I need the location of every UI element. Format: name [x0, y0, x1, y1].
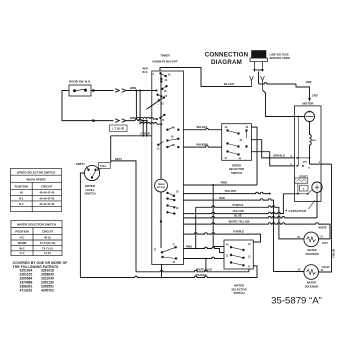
timer contact R3 terminal 42: [167, 144, 180, 148]
label ORANGE: [195, 273, 207, 277]
wire GRN ground: [259, 72, 310, 100]
svg-text:WHITE-BLUE: WHITE-BLUE: [196, 268, 213, 272]
motor terminal 2 nodes: [296, 165, 304, 167]
timer contact mid: [157, 142, 164, 151]
wire vertical v3: [142, 121, 144, 136]
motor terminal 3 node: [296, 157, 310, 159]
ground arrow to motor frame: [308, 98, 311, 102]
label DEAT: [115, 157, 122, 161]
arrowhead brn2: [93, 119, 97, 122]
svg-text:4PU: 4PU: [303, 161, 308, 164]
wire YELLOW lower: [183, 194, 298, 214]
svg-text:TIMER: TIMER: [158, 184, 165, 186]
label 20: [298, 270, 301, 272]
timer contact T5: [158, 97, 165, 106]
wire full-to-switch: [97, 169, 101, 171]
svg-text:L.T. BLUE: L.T. BLUE: [112, 127, 124, 131]
label 4PU lower: [303, 161, 308, 164]
label BRN 2: [130, 116, 136, 120]
svg-text:EMPTY: EMPTY: [76, 162, 85, 166]
hot water solenoid L1: [304, 232, 319, 247]
wire BLUE: [183, 216, 317, 217]
svg-text:WATER SELECTOR SWITCH: WATER SELECTOR SWITCH: [17, 222, 56, 226]
wire speed-sel 44 to motor 2: [251, 152, 294, 166]
wire BLACK plug-to-timer: [160, 68, 252, 87]
svg-text:35-5879 “A”: 35-5879 “A”: [271, 296, 322, 307]
svg-text:CONNECTION: CONNECTION: [205, 52, 249, 59]
label BLUE: [234, 214, 242, 218]
svg-text:11-10: 11-10: [44, 251, 51, 255]
label WATER SELECTOR SWITCH: [231, 284, 246, 296]
wire RED: [183, 199, 304, 272]
svg-text:YELLOW: YELLOW: [224, 189, 236, 193]
svg-text:WH-BRN: WH-BRN: [196, 143, 207, 147]
svg-text:PURPLE: PURPLE: [233, 203, 244, 207]
svg-text:LT. BLUE: LT. BLUE: [140, 133, 151, 136]
wire deat white-blue feed: [111, 161, 136, 272]
svg-text:SPEED SELECTOR SWITCH: SPEED SELECTOR SWITCH: [17, 171, 56, 175]
cold water solenoid L2: [304, 265, 319, 280]
label YELLOW upper: [224, 189, 236, 193]
wire WH-BLK: [183, 128, 222, 129]
svg-text:SERVICE CORD: SERVICE CORD: [270, 56, 290, 60]
label 4PU upper: [312, 139, 317, 142]
svg-text:YELLOW: YELLOW: [232, 209, 244, 213]
wire door switch return: [62, 91, 114, 121]
label FULL boxed: [99, 163, 111, 169]
wire speed-sel 46 to pink bus: [251, 127, 257, 185]
svg-text:WHITE-YELLOW: WHITE-YELLOW: [228, 220, 250, 224]
label START: [299, 174, 308, 178]
timer contact R1 terminal 43: [167, 127, 180, 131]
svg-text:CIRCUIT: CIRCUIT: [41, 185, 53, 189]
timer inner bus: [160, 73, 162, 179]
timer contact T1: [160, 72, 171, 77]
timer contact B2 terminal 10: [162, 256, 177, 264]
label LT. BLUE plain: [140, 133, 151, 136]
svg-text:ORN-BLK: ORN-BLK: [273, 153, 285, 157]
wire timer bottom drop: [161, 265, 163, 279]
motor start nodes: [297, 183, 312, 195]
node junction v4: [146, 120, 148, 122]
timer contact T4: [157, 94, 168, 98]
label WHITE-BLUE: [196, 268, 213, 272]
svg-text:N-1: N-1: [19, 196, 24, 200]
svg-text:WASH SPEED: WASH SPEED: [26, 177, 45, 181]
timer node big: [160, 220, 162, 222]
timer blade from coil: [146, 101, 159, 110]
svg-text:HI: HI: [20, 191, 23, 195]
coil hop 2 into timer: [140, 122, 161, 124]
svg-text:72-71-10: 72-71-10: [42, 246, 53, 250]
timer contact T2: [160, 78, 167, 82]
water selector terminals: [226, 244, 251, 269]
svg-text:BLK: BLK: [142, 71, 147, 74]
label 11: [308, 168, 311, 170]
label GRN: [306, 80, 312, 84]
label patent list: [13, 261, 67, 292]
label CAPACITOR: [286, 209, 307, 213]
label 21 hot: [320, 237, 323, 239]
wire timer-to-watersel 2: [183, 257, 224, 272]
wire YELLOW upper: [183, 192, 271, 194]
svg-text:72-71(40-10): 72-71(40-10): [40, 241, 56, 245]
label ORN-BLK: [273, 153, 285, 157]
svg-text:SOLENOID: SOLENOID: [305, 252, 319, 256]
label PURPLE lower: [233, 230, 244, 234]
svg-text:BRN: BRN: [130, 116, 136, 120]
svg-text:DIAGRAM: DIAGRAM: [211, 59, 242, 66]
svg-text:BLUE: BLUE: [234, 214, 242, 218]
svg-text:LINE VOLTAGE: LINE VOLTAGE: [270, 53, 290, 57]
svg-text:4A-46 47-43: 4A-46 47-43: [39, 196, 54, 200]
svg-text:W-C: W-C: [19, 246, 24, 250]
water selector switch box: [224, 240, 253, 269]
svg-text:CIRCUIT: CIRCUIT: [42, 230, 54, 234]
svg-text:TIMER: TIMER: [160, 54, 170, 58]
svg-text:WATER: WATER: [307, 281, 316, 285]
svg-text:ORANGE: ORANGE: [195, 273, 207, 277]
timer box: [152, 71, 184, 265]
label YELLOW lower: [232, 209, 244, 213]
label WATER LEVEL SWITCH: [84, 184, 95, 195]
title CONNECTION DIAGRAM: [205, 52, 249, 67]
wire vertical v1: [135, 91, 137, 120]
plug prong arrow right: [261, 64, 264, 72]
svg-text:C-C: C-C: [20, 251, 25, 255]
svg-text:WATER: WATER: [307, 248, 316, 252]
timer contact T6: [160, 114, 166, 122]
door switch S1 box: [69, 85, 91, 96]
label 1: [319, 162, 321, 164]
svg-text:1A: 1A: [168, 74, 171, 77]
svg-text:GRN: GRN: [306, 80, 312, 84]
svg-text:KNOB-PUSH OFF: KNOB-PUSH OFF: [153, 59, 178, 63]
motor overload protector: [305, 111, 315, 122]
svg-text:CAPACITOR: CAPACITOR: [289, 209, 307, 213]
connector Y white lead: [261, 76, 265, 90]
svg-text:SWITCH: SWITCH: [233, 291, 244, 295]
wire LT BLUE: [111, 135, 152, 137]
door switch contacts: [74, 89, 87, 92]
timer contact R4 terminal 30: [167, 192, 180, 197]
svg-text:4714191: 4714191: [20, 288, 33, 292]
label 3: [290, 156, 292, 158]
svg-text:SWITCH: SWITCH: [84, 192, 95, 196]
svg-text:MOTOR: MOTOR: [157, 187, 166, 189]
timer contact R2 terminal 45: [167, 136, 180, 142]
label PINK bus: [221, 181, 227, 185]
table SPEED SELECTOR SWITCH: [11, 168, 62, 211]
svg-text:DOOR SW. N.O.: DOOR SW. N.O.: [69, 80, 92, 84]
wire vertical v4: [146, 121, 148, 136]
label Y-BLUE vertical: [333, 249, 336, 259]
svg-text:WARM: WARM: [18, 241, 27, 245]
label PINK lower: [186, 245, 192, 249]
label RED-BLK: [142, 68, 148, 74]
wire BRN 2 connector: [115, 119, 147, 123]
label L.T. BLUE boxed: [110, 125, 128, 132]
label GRD (cord): [256, 68, 262, 72]
svg-text:4A: 4A: [225, 126, 228, 129]
svg-text:PURPLE: PURPLE: [233, 230, 244, 234]
svg-text:BRN: BRN: [130, 86, 136, 90]
label GRD (motor): [312, 94, 318, 98]
timer contact B1 terminals 72 71: [153, 244, 176, 253]
speed selector contacts: [227, 130, 248, 156]
wire PINK lower: [183, 247, 224, 252]
label TIMER: [153, 54, 178, 64]
timer contact R5: [167, 198, 176, 201]
label DOOR SW. N.O.: [69, 80, 92, 84]
node junction v1: [135, 90, 137, 92]
motor main winding: [310, 122, 312, 165]
svg-text:SOLENOID: SOLENOID: [305, 284, 319, 288]
label SPEED SELECTOR SWITCH: [229, 163, 244, 175]
coil hop 1 into timer: [136, 117, 157, 119]
wire BRN 1 door to timer: [91, 89, 158, 93]
label EMPTY: [76, 162, 85, 166]
svg-text:GRD: GRD: [312, 94, 318, 98]
label COLD: [322, 265, 330, 269]
svg-text:H-C: H-C: [20, 236, 25, 240]
timer coil node 2: [160, 123, 162, 125]
capacitor pointer: [309, 200, 316, 209]
wire WHITE-BLUE: [136, 269, 249, 272]
wire lt-blue down to junction: [110, 136, 112, 163]
water level switch contacts: [86, 167, 96, 179]
svg-text:RED: RED: [219, 196, 225, 200]
svg-text:PINK: PINK: [221, 181, 227, 185]
wire vertical v2: [139, 91, 141, 125]
table WATER SELECTOR SWITCH: [11, 220, 62, 255]
motor start winding box: [300, 185, 309, 191]
label PURPLE upper: [233, 203, 244, 207]
label timer terminal 4: [153, 73, 155, 76]
svg-text:DEAT: DEAT: [115, 157, 122, 161]
svg-text:Y-BLUE: Y-BLUE: [333, 249, 336, 259]
label 2: [290, 164, 292, 166]
wire ORN-BLK speed-sel 45 to motor 3: [251, 140, 294, 158]
wire protector node: [298, 116, 300, 166]
label 23: [297, 237, 300, 239]
svg-text:WHITE: WHITE: [318, 225, 327, 229]
plug prong arrow left: [253, 64, 256, 72]
node lt-blue v3: [142, 135, 144, 137]
svg-text:HOT: HOT: [322, 241, 328, 245]
svg-text:WH-BLK: WH-BLK: [197, 125, 208, 129]
svg-text:4PU: 4PU: [312, 139, 317, 142]
speed selector switch box: [222, 124, 252, 161]
arrowhead brn1: [93, 89, 97, 92]
svg-text:4A-46 47-45: 4A-46 47-45: [39, 191, 54, 195]
label BRN 1: [130, 86, 136, 90]
svg-text:N-2: N-2: [19, 202, 24, 206]
motor start switch box: [295, 178, 308, 183]
label WH-BLK: [197, 125, 208, 129]
label drawing number 35-5879 A: [271, 296, 322, 307]
svg-text:START: START: [299, 174, 308, 178]
label WHITE: [318, 225, 327, 229]
wire PURPLE upper: [196, 206, 304, 249]
label MOTOR: [302, 101, 314, 105]
wire ORANGE: [80, 266, 257, 278]
timer contact R6 terminal 32: [167, 205, 180, 210]
svg-text:4A-42 47-43: 4A-42 47-43: [39, 202, 54, 206]
timer bus lower: [160, 192, 162, 248]
svg-text:4245702: 4245702: [41, 288, 54, 292]
svg-text:SWITCH: SWITCH: [231, 171, 242, 175]
node lt-blue v4: [146, 135, 148, 137]
plug P1 line voltage service cord: [250, 51, 268, 65]
label 21 cold: [321, 270, 324, 272]
wire WHITE plug-to-motor: [263, 90, 305, 117]
label LINE VOLTAGE SERVICE CORD: [270, 53, 290, 61]
svg-text:POSITION: POSITION: [15, 230, 28, 234]
svg-text:POSITION: POSITION: [15, 185, 28, 189]
connector Y black lead: [250, 76, 254, 87]
water level switch S2: [84, 165, 99, 180]
wire PINK bus: [183, 184, 257, 247]
wire start circle to blue: [316, 192, 318, 218]
svg-text:MOTOR: MOTOR: [302, 101, 314, 105]
label hot WATER SOLENOID: [305, 248, 319, 256]
label WHITE-YELLOW: [228, 220, 250, 224]
svg-text:FULL: FULL: [100, 164, 107, 168]
svg-text:PINK: PINK: [186, 245, 192, 249]
timer contact T3: [161, 85, 167, 93]
wire WH-BRN: [183, 146, 222, 147]
label WH-BRN: [196, 143, 207, 147]
water selector contacts: [230, 246, 244, 266]
node junction v3: [142, 120, 144, 122]
label cold WATER SOLENOID: [305, 281, 319, 289]
wire water level left down (orange feed): [80, 173, 84, 278]
label BLACK: [224, 82, 235, 86]
speed selector terminals: [225, 126, 249, 160]
label HOT: [322, 241, 328, 245]
timer coil node 1: [156, 118, 158, 120]
wire cold solenoid to motor 1 (Y-BLUE): [319, 164, 332, 272]
motor box: [295, 106, 322, 202]
timer contact R7: [167, 211, 176, 214]
wire WHITE-YELLOW: [183, 223, 330, 239]
wire motor terminal 1 out: [310, 163, 332, 165]
svg-text:BLACK: BLACK: [224, 82, 235, 86]
timer motor M1: [155, 179, 168, 192]
motor start capacitor circle: [312, 182, 322, 192]
label RED: [219, 196, 225, 200]
wire PURPLE lower: [183, 233, 261, 242]
svg-text:40-10: 40-10: [44, 236, 51, 240]
svg-text:COLD: COLD: [322, 265, 330, 269]
node junction v2: [139, 90, 141, 92]
